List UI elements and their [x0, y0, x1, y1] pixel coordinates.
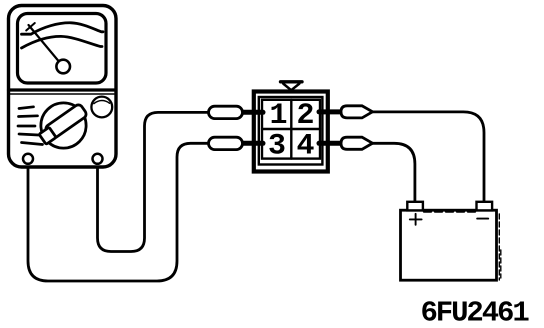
meter pivot circle [56, 60, 70, 74]
probe lug at pin 4 [341, 137, 373, 149]
plus symbol [410, 214, 422, 225]
probe lug at pin 2 [341, 106, 373, 118]
battery right edge shading [499, 214, 501, 280]
minus symbol [477, 218, 488, 220]
meter needle tail tick [26, 23, 35, 31]
indicator circle top right [91, 97, 112, 118]
pin 4 stub [319, 141, 343, 146]
probe lug at pin 1 [209, 106, 243, 118]
svg-text:2: 2 [296, 99, 314, 133]
probe lug at pin 3 [209, 137, 243, 149]
connector cell grid [262, 100, 320, 159]
panel divider line thin [10, 93, 114, 95]
wire: connector pin 4 lug to battery positive post [371, 143, 415, 203]
battery positive post [407, 202, 423, 211]
rotary knob bar [44, 103, 88, 140]
battery BT1 body [401, 210, 497, 280]
battery top shading dashes [424, 210, 476, 212]
dial position marks fan [19, 107, 34, 109]
multimeter right probe terminal [93, 154, 103, 164]
connector polarity triangle marker [281, 80, 303, 83]
meter scale arc lower [22, 36, 103, 48]
wire: connector pin 2 lug to battery negative post [371, 112, 484, 203]
meter needle [29, 25, 59, 61]
connector inner housing [259, 97, 323, 165]
svg-text:1: 1 [269, 99, 287, 133]
multimeter left probe terminal [23, 154, 33, 164]
pin 1 stub [242, 110, 263, 115]
rotary dial circle [41, 103, 86, 148]
rotary knob tip square [39, 127, 56, 144]
svg-text:6FU2461: 6FU2461 [421, 297, 530, 328]
wire: multimeter right terminal to connector pin 1 lug [98, 112, 211, 251]
svg-text:4: 4 [296, 130, 314, 164]
pin 2 stub [319, 109, 343, 114]
battery negative post [477, 202, 493, 211]
multimeter U1 body [9, 6, 117, 168]
wire: multimeter left terminal to connector pin 3 lug [28, 143, 210, 281]
panel divider line thick [9, 88, 116, 91]
connector J1 outer housing [254, 92, 328, 172]
multimeter meter window [18, 14, 107, 84]
svg-text:3: 3 [268, 130, 286, 164]
meter scale arc upper [22, 23, 104, 34]
pin 3 stub [242, 141, 263, 146]
